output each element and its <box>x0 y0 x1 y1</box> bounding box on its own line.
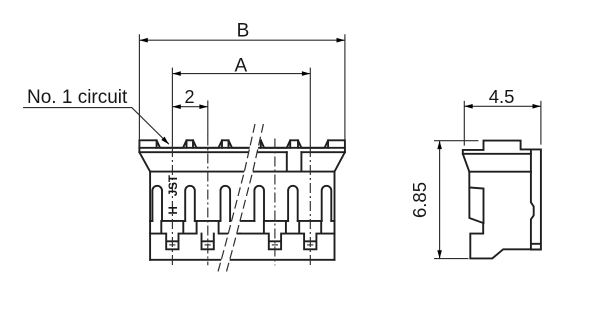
side top second line <box>463 153 531 155</box>
svg-text:HJST: HJST <box>168 175 180 214</box>
svg-text:B: B <box>237 20 250 41</box>
body right wall <box>334 172 336 260</box>
svg-text:4.5: 4.5 <box>489 86 515 107</box>
svg-text:2: 2 <box>184 87 194 107</box>
rib slot domes <box>152 186 162 221</box>
dimension A <box>172 55 310 147</box>
svg-text:No. 1 circuit: No. 1 circuit <box>27 87 128 108</box>
side back wall <box>531 149 541 249</box>
dimension B <box>139 20 345 147</box>
centerline circuit 4 <box>309 147 311 265</box>
centerline circuit 1 <box>171 147 173 265</box>
strip bottom line <box>139 151 345 153</box>
break line 2 <box>226 124 263 273</box>
centerline circuit 3 <box>274 139 276 266</box>
side view outline <box>463 141 531 259</box>
break line 1 <box>218 124 255 273</box>
centerline circuit 2 <box>207 136 209 266</box>
dimension 2 <box>172 87 207 136</box>
cavity notches circuit 2 <box>197 221 240 249</box>
body left wall <box>149 172 151 260</box>
leader No. 1 circuit <box>23 87 171 146</box>
body bottom <box>150 259 334 261</box>
body top line <box>150 171 334 173</box>
strip top line <box>139 147 345 149</box>
svg-text:A: A <box>234 55 247 76</box>
side inner top line <box>469 171 531 173</box>
bump plateau verticals <box>157 140 329 148</box>
left chamfer <box>139 152 150 171</box>
dimension 4.5 <box>464 86 541 145</box>
cavity notches circuit 3 <box>240 221 286 249</box>
polarizing tab <box>287 152 302 171</box>
right chamfer <box>335 152 345 171</box>
shelf line <box>150 220 334 222</box>
cavity notches circuit 4 <box>286 221 335 249</box>
cavity notches circuit 1 <box>150 221 197 249</box>
side rib <box>469 188 483 224</box>
break band mask <box>218 122 264 274</box>
front view housing outline <box>139 140 345 152</box>
svg-text:6.85: 6.85 <box>409 182 430 218</box>
dimension 6.85 <box>409 141 479 259</box>
